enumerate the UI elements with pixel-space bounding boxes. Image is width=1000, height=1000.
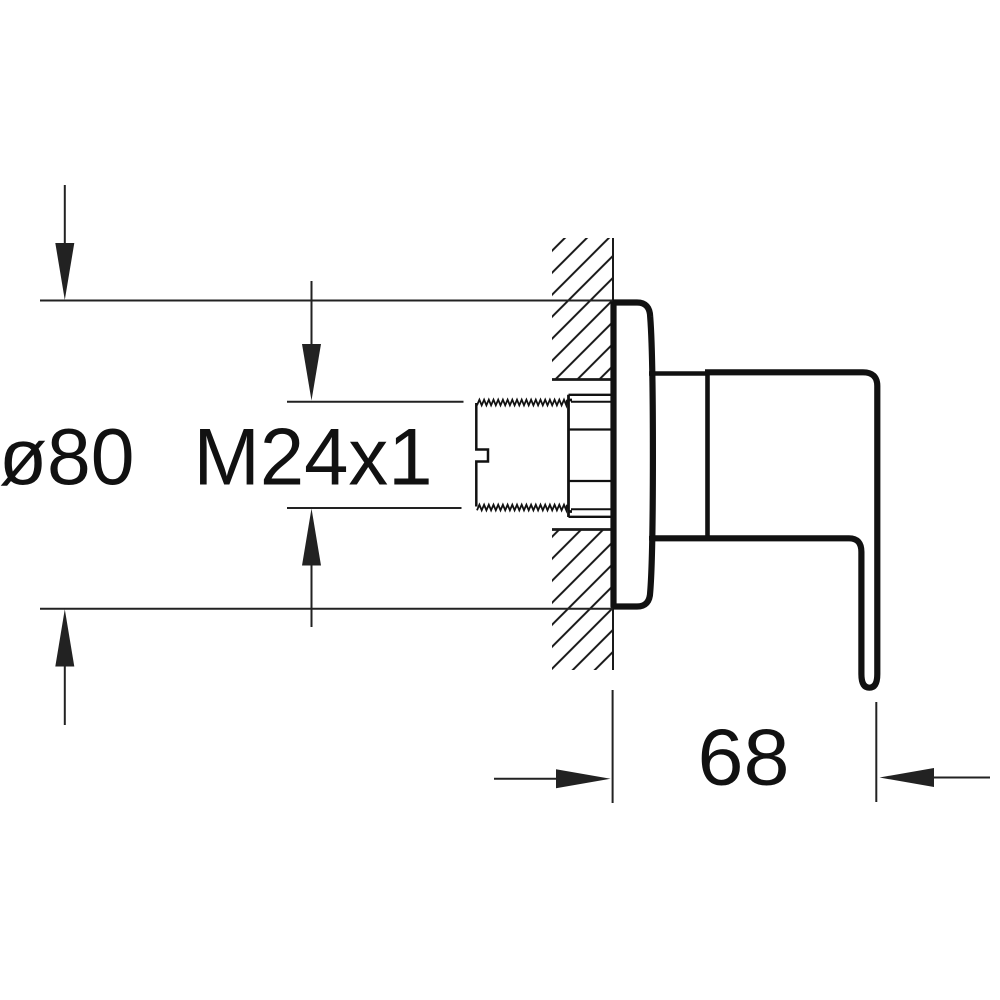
valve body left edge	[705, 370, 710, 540]
arrow down far-left	[55, 185, 74, 300]
escutcheon flange	[614, 303, 653, 607]
dimension line top	[40, 300, 613, 302]
wall hole top edge	[552, 378, 613, 381]
handle and body outline	[651, 372, 877, 687]
pipe thread lower zigzag	[477, 505, 567, 511]
valve neck bottom line	[649, 536, 709, 541]
threaded pipe body outline	[476, 403, 488, 507]
union nut facet line lower	[569, 480, 613, 482]
arrow up far-left	[55, 609, 74, 725]
arrow pointing right (68 left)	[494, 769, 611, 788]
union nut pipe top line	[571, 401, 612, 403]
union nut pipe bottom line	[571, 508, 612, 510]
union nut left face	[569, 395, 573, 517]
svg-text:M24x1: M24x1	[194, 413, 433, 503]
pipe thread upper zigzag	[477, 400, 567, 406]
valve neck top line	[649, 371, 709, 376]
svg-text:ø80: ø80	[0, 412, 135, 501]
svg-text:68: 68	[698, 713, 790, 802]
dimension line bottom	[40, 608, 613, 610]
arrow down middle	[302, 281, 321, 401]
wall section upper (hatched)	[552, 238, 613, 380]
label diameter 80	[0, 412, 135, 501]
extension line 68 left	[612, 690, 614, 803]
union nut bottom edge	[569, 516, 613, 518]
wall hole bottom edge	[552, 528, 613, 531]
arrow up middle	[302, 509, 321, 628]
union nut facet line upper	[569, 428, 613, 430]
arrow pointing left (68 right)	[880, 768, 991, 787]
union nut top edge	[569, 394, 613, 396]
wall face line	[612, 238, 614, 670]
extension line 68 right	[875, 702, 877, 802]
label 68	[698, 713, 790, 802]
wall section lower (hatched)	[552, 530, 613, 671]
M24 extension line bottom	[287, 507, 462, 509]
M24 extension line top	[287, 401, 464, 403]
label M24x1	[194, 413, 433, 503]
